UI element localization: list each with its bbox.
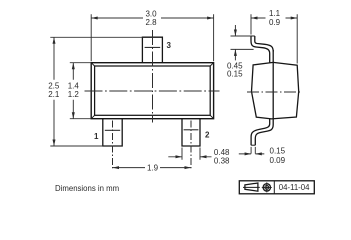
projection symbol box [239,181,314,194]
projection cone symbol [245,183,258,191]
svg-text:04-11-04: 04-11-04 [279,183,310,192]
projection circle symbol [263,184,270,191]
svg-text:Dimensions in mm: Dimensions in mm [55,184,119,193]
svg-text:3.0: 3.0 [145,9,157,18]
pin 2 centerline [190,121,192,169]
body corner bevels [91,63,213,119]
pin 1 centerline [112,121,114,169]
svg-text:1: 1 [94,132,99,141]
svg-text:2.1: 2.1 [48,90,60,99]
side view lead parting line [272,50,274,119]
dimension 0.45/0.15 arrows [234,25,236,60]
pin 1 [103,119,122,146]
side view horizontal centerline [247,91,302,93]
pin 3 tab [142,37,162,63]
svg-text:2: 2 [205,130,210,139]
svg-text:0.15: 0.15 [227,69,243,78]
dimension 1.1/0.9 line [251,17,297,19]
side view bottom lead [251,119,270,145]
svg-text:0.15: 0.15 [270,147,286,156]
dimension 0.15/0.09 extension lines [251,147,255,154]
svg-text:0.38: 0.38 [214,157,230,166]
body outline front view inner [95,66,211,115]
svg-text:2.5: 2.5 [48,81,60,90]
dimension 0.48/0.38 extension lines [182,148,200,160]
svg-text:0.9: 0.9 [269,18,281,27]
dimension 3.0/2.8 line [91,17,213,19]
dimension 0.45/0.15 reference lines [231,36,254,49]
svg-text:0.09: 0.09 [270,156,286,165]
dimension 0.48/0.38 arrows [168,156,211,158]
pin 3 centerline tick [145,46,161,48]
body outline front view outer [91,63,213,119]
svg-text:2.8: 2.8 [145,18,157,27]
svg-text:1.1: 1.1 [269,9,281,18]
pin 2 centerline tick [184,129,199,131]
svg-text:1.9: 1.9 [147,163,159,172]
pin 1 centerline tick [105,129,120,131]
vertical centerline front view [152,30,154,123]
dimension 2.5/2.1 line [53,37,55,146]
svg-text:3: 3 [167,41,172,50]
horizontal centerline front view [85,90,220,92]
dimension 3.0/2.8 extension lines [91,14,213,61]
dimension 0.15/0.09 arrows [239,153,264,155]
svg-text:1.2: 1.2 [68,90,80,99]
dimension 1.4/1.2 reference lines [70,63,91,119]
side view body outline [252,62,299,119]
dimension 1.4/1.2 line [72,63,74,119]
dimension 1.1/0.9 extension lines [251,14,297,63]
pin 2 [182,119,200,146]
side view top lead [251,36,270,63]
dimension 1.9 line [113,167,192,169]
dimension 2.5/2.1 reference lines [50,37,142,146]
svg-text:1.4: 1.4 [68,81,80,90]
